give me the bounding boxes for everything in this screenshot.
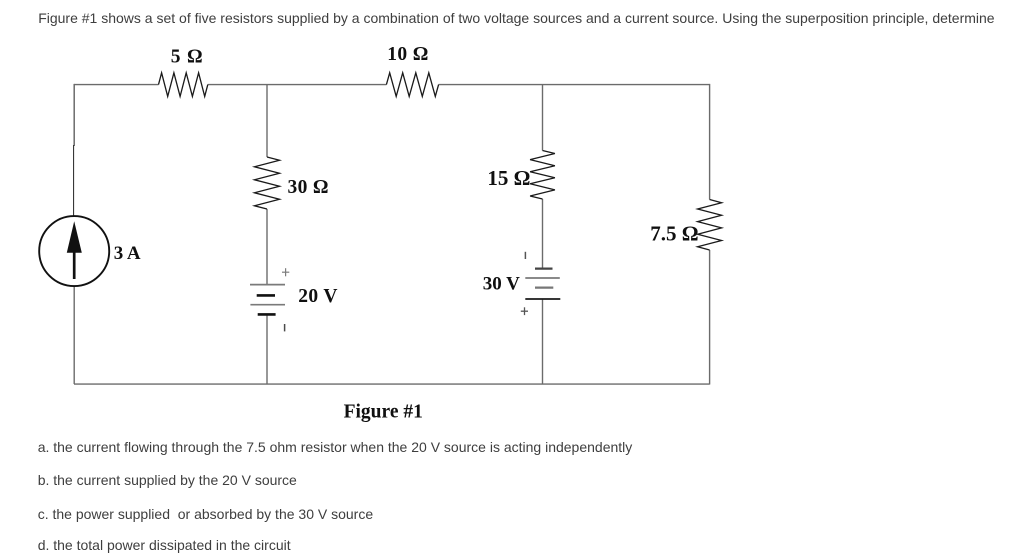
current source arrow head [67, 221, 82, 253]
wire branch1 middle (30 ohm to 20V battery) [266, 209, 268, 285]
svg-text:3 A: 3 A [114, 243, 141, 264]
wire top rail right segment [439, 84, 710, 86]
wire branch2 upper (node to 15 ohm) [542, 85, 544, 151]
resistor 30 ohm zigzag [255, 157, 280, 209]
current source arrow shaft [73, 249, 76, 279]
resistor 15 ohm zigzag [530, 151, 555, 200]
question a [38, 440, 633, 454]
wire branch1 upper (node to 30 ohm) [266, 85, 268, 157]
svg-text:15 Ω: 15 Ω [487, 166, 530, 190]
wire branch1 lower (20V battery to bottom rail) [266, 314, 268, 384]
resistor 10 ohm zigzag [386, 73, 438, 97]
wire bottom rail [74, 383, 710, 385]
wire branch2 middle (15 ohm to 30V battery) [542, 199, 544, 269]
wire branch2 lower (30V battery to bottom rail) [542, 299, 544, 384]
30V battery plate long bottom [525, 298, 560, 300]
wire left vertical lower [73, 286, 75, 384]
wire left vertical lower black thin part [73, 145, 75, 217]
20V battery plus sign [282, 271, 289, 273]
svg-text:30 V: 30 V [483, 273, 520, 294]
20V battery plate long bottom [250, 304, 285, 306]
svg-text:7.5 Ω: 7.5 Ω [650, 222, 698, 246]
wire left vertical upper gray part [73, 84, 75, 146]
question c [38, 507, 373, 521]
30V battery minus tick [524, 252, 526, 259]
question b [38, 473, 297, 487]
20V battery minus tick [284, 324, 286, 331]
question d [38, 538, 291, 552]
svg-text:30 Ω: 30 Ω [288, 177, 329, 198]
wire right vertical upper [709, 84, 711, 200]
30V battery plate long 1 [525, 277, 560, 279]
wire top rail middle segment [208, 84, 387, 86]
30V battery plate short 2 [535, 287, 553, 289]
current source circle [39, 216, 109, 286]
resistor 7.5 ohm zigzag [698, 200, 722, 251]
30V battery plate short top [535, 268, 553, 270]
problem statement text [38, 11, 994, 25]
20V battery plate short 1 [257, 294, 275, 297]
20V battery plate short 2 [258, 313, 276, 316]
20V battery plate long top [250, 284, 285, 286]
resistor 5 ohm zigzag [159, 73, 208, 97]
30V battery plus sign [521, 310, 528, 312]
svg-text:5 Ω: 5 Ω [171, 47, 203, 68]
wire right vertical lower [709, 250, 711, 385]
svg-text:20 V: 20 V [298, 286, 338, 307]
svg-text:10 Ω: 10 Ω [387, 44, 428, 65]
svg-text:Figure #1: Figure #1 [344, 401, 423, 422]
wire top rail left segment [74, 84, 159, 86]
